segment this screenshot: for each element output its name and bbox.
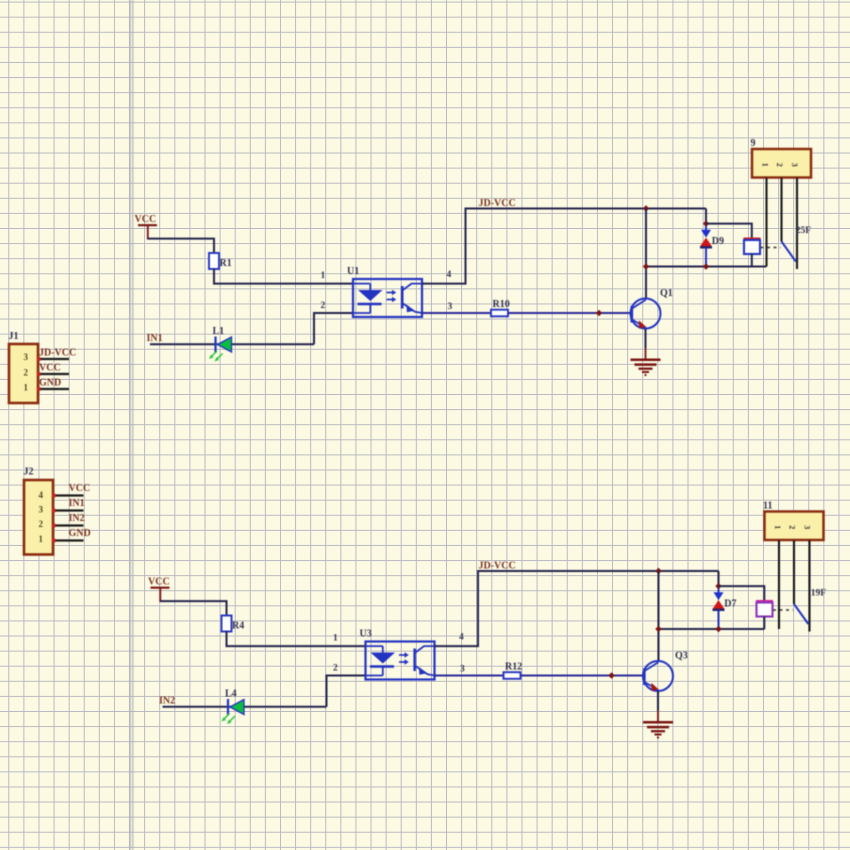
svg-text:IN1: IN1 bbox=[147, 333, 163, 344]
svg-text:R4: R4 bbox=[232, 621, 244, 632]
svg-text:1: 1 bbox=[773, 525, 782, 529]
connector J2 bbox=[24, 480, 53, 555]
wire pin 3 to R10 bbox=[422, 312, 491, 314]
junction (rail / collector) bbox=[643, 205, 649, 211]
svg-text:IN2: IN2 bbox=[69, 513, 85, 524]
transistor Q1 bbox=[631, 288, 673, 329]
svg-text:2: 2 bbox=[333, 664, 338, 674]
svg-text:R1: R1 bbox=[220, 258, 232, 269]
svg-text:1: 1 bbox=[333, 634, 338, 644]
junction (diode bottom) bbox=[703, 263, 709, 269]
relay contact blade bbox=[782, 242, 796, 262]
svg-text:D7: D7 bbox=[724, 599, 736, 610]
svg-text:3: 3 bbox=[790, 163, 799, 167]
ground bbox=[631, 360, 661, 376]
wire IN2 to pin 2 bbox=[163, 706, 327, 708]
relay pin 2 line bbox=[793, 540, 795, 604]
relay coil bbox=[744, 239, 761, 254]
svg-text:JD-VCC: JD-VCC bbox=[39, 348, 76, 359]
svg-text:L1: L1 bbox=[213, 326, 225, 337]
svg-text:GND: GND bbox=[69, 528, 91, 539]
wire coil bottom rail bbox=[646, 266, 767, 268]
svg-text:IN1: IN1 bbox=[69, 498, 85, 509]
wire diode to coil bbox=[706, 224, 752, 239]
svg-text:Q1: Q1 bbox=[660, 288, 673, 299]
wire R12 to base bbox=[521, 675, 644, 677]
wire pin 3 to R12 bbox=[435, 675, 504, 677]
svg-text:U1: U1 bbox=[347, 266, 359, 277]
relay pin 3 line bbox=[796, 178, 798, 269]
resistor R12 bbox=[504, 662, 523, 679]
J1 pin 1 line bbox=[37, 387, 69, 391]
svg-text:VCC: VCC bbox=[69, 483, 91, 494]
connector J1 bbox=[9, 344, 38, 403]
relay pin 2 line bbox=[780, 178, 782, 242]
J2 pin 4 line bbox=[52, 494, 84, 498]
svg-text:3: 3 bbox=[448, 302, 453, 312]
svg-text:2: 2 bbox=[788, 525, 797, 529]
resistor R4 bbox=[222, 616, 245, 632]
wire pin 2 to LED net bbox=[314, 313, 354, 344]
wire IN1 to pin 2 bbox=[150, 343, 314, 345]
wire emitter bbox=[645, 329, 647, 360]
svg-text:VCC: VCC bbox=[135, 214, 157, 225]
svg-text:11: 11 bbox=[763, 501, 772, 512]
J1 pin 2 line bbox=[37, 372, 69, 376]
junction (diode top) bbox=[715, 583, 721, 589]
relay header J11 bbox=[765, 512, 824, 541]
resistor R10 bbox=[491, 299, 510, 316]
svg-text:1: 1 bbox=[24, 383, 29, 393]
svg-text:1: 1 bbox=[39, 534, 44, 544]
svg-text:L4: L4 bbox=[225, 689, 237, 700]
junction (diode bottom) bbox=[715, 626, 721, 632]
wire R10 to base bbox=[508, 312, 631, 314]
wire VCC to R1 bbox=[148, 239, 214, 254]
svg-text:2: 2 bbox=[775, 163, 784, 167]
relay header J9 bbox=[752, 149, 811, 178]
svg-text:VCC: VCC bbox=[148, 577, 170, 588]
optocoupler U3 bbox=[360, 629, 435, 680]
relay contact blade bbox=[794, 604, 808, 624]
wire pin 2 to LED net bbox=[327, 676, 367, 707]
diode D9 bbox=[700, 226, 724, 264]
diode D7 bbox=[712, 589, 736, 627]
svg-text:R10: R10 bbox=[493, 299, 510, 310]
J1 pin 3 line bbox=[37, 357, 69, 361]
wire coil to bottom rail bbox=[763, 617, 765, 630]
J2 pin 3 line bbox=[52, 509, 84, 513]
svg-text:19F: 19F bbox=[811, 589, 827, 599]
relay pin 1 line bbox=[778, 540, 780, 629]
svg-text:JD-VCC: JD-VCC bbox=[479, 198, 516, 209]
wire rail to diode bbox=[718, 571, 720, 586]
wire coil to bottom rail bbox=[751, 254, 753, 267]
svg-text:IN2: IN2 bbox=[159, 696, 175, 707]
sheet border vertical bbox=[129, 0, 131, 850]
J2 pin 2 line bbox=[52, 524, 84, 528]
wire rail to diode bbox=[705, 209, 707, 224]
wire pin 4 to JD-VCC rail bbox=[422, 209, 706, 284]
svg-text:4: 4 bbox=[39, 490, 44, 500]
relay pin 1 line bbox=[765, 178, 767, 267]
svg-text:D9: D9 bbox=[712, 236, 724, 247]
wire rail to Q1 collector bbox=[645, 209, 647, 300]
svg-text:2: 2 bbox=[24, 368, 29, 378]
junction (base wire) bbox=[596, 310, 602, 316]
svg-text:9: 9 bbox=[751, 138, 756, 149]
svg-text:3: 3 bbox=[39, 505, 44, 515]
svg-text:2: 2 bbox=[39, 519, 44, 529]
power VCC (circuit 1) bbox=[135, 214, 158, 240]
svg-text:4: 4 bbox=[447, 270, 452, 280]
wire R4 to pin 1 bbox=[227, 631, 367, 646]
svg-text:U3: U3 bbox=[360, 629, 372, 640]
svg-text:1: 1 bbox=[761, 163, 770, 167]
wire pin 4 to JD-VCC rail bbox=[435, 571, 719, 646]
relay coil bbox=[756, 601, 773, 616]
wire rail to Q3 collector bbox=[658, 571, 660, 662]
svg-text:2: 2 bbox=[321, 301, 326, 311]
junction (diode top) bbox=[703, 220, 709, 226]
junction (bottom / collector) bbox=[643, 263, 649, 269]
wire R1 to pin 1 bbox=[214, 269, 354, 284]
svg-text:GND: GND bbox=[39, 378, 61, 389]
power VCC (circuit 2) bbox=[148, 577, 170, 603]
J2 pin 1 line bbox=[52, 539, 84, 543]
sheet border vertical 2 bbox=[132, 0, 134, 850]
wire coil bottom rail bbox=[659, 628, 765, 630]
svg-text:1: 1 bbox=[321, 271, 326, 281]
junction (rail / collector) bbox=[655, 568, 661, 574]
svg-text:3: 3 bbox=[24, 352, 29, 362]
wire VCC to R4 bbox=[160, 601, 226, 616]
wire emitter bbox=[657, 691, 659, 722]
LED L4 bbox=[222, 689, 245, 725]
dashed link (coil-contact) bbox=[773, 609, 793, 611]
ground bbox=[643, 722, 673, 738]
LED L1 bbox=[209, 326, 232, 362]
svg-text:J1: J1 bbox=[9, 331, 19, 342]
junction (base wire) bbox=[608, 672, 614, 678]
svg-text:3: 3 bbox=[802, 525, 811, 529]
svg-text:JD-VCC: JD-VCC bbox=[479, 561, 516, 572]
resistor R1 bbox=[209, 253, 232, 269]
svg-text:4: 4 bbox=[459, 633, 464, 643]
svg-text:25F: 25F bbox=[796, 226, 812, 236]
dashed link (coil-contact) bbox=[761, 247, 781, 249]
svg-text:J2: J2 bbox=[24, 467, 34, 478]
relay pin 3 line bbox=[808, 540, 810, 631]
transistor Q3 bbox=[643, 651, 688, 692]
svg-text:VCC: VCC bbox=[39, 363, 61, 374]
svg-text:R12: R12 bbox=[505, 662, 522, 673]
junction (bottom / collector) bbox=[655, 626, 661, 632]
wire diode to coil bbox=[719, 586, 765, 601]
svg-text:Q3: Q3 bbox=[675, 651, 688, 662]
optocoupler U1 bbox=[347, 266, 422, 317]
svg-text:3: 3 bbox=[460, 665, 465, 675]
